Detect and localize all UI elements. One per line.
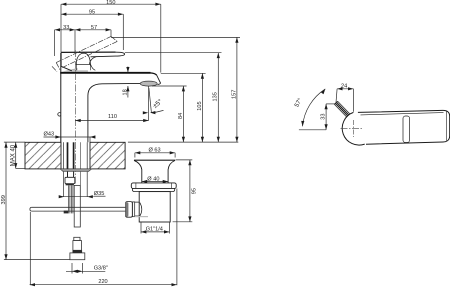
dimension 57 [75,30,111,52]
mounting nut [65,177,75,183]
extension line 135 (lever top) [125,52,222,54]
svg-text:110: 110 [108,114,117,120]
drain collar ring 1 [131,183,176,189]
supply hose pair [68,185,70,213]
head left edge and chin [61,53,72,71]
faucet body left edge [60,53,62,143]
57° arc [303,89,326,126]
dimension 157 [236,37,238,142]
shank tube through deck [63,142,65,196]
dimension 105 [201,73,203,142]
aerator [140,81,157,86]
svg-text:57: 57 [91,25,97,31]
blade inner cap line [445,112,447,141]
faucet centerline [74,50,76,205]
dimension 220 [29,212,31,285]
shadow bar above spout top [67,70,88,72]
svg-text:220: 220 [98,279,107,285]
washer under deck [60,169,92,172]
svg-text:105: 105 [197,101,203,110]
handle centerlines [341,128,392,130]
phantom raised lever (side view, drawn over solid) [52,36,117,71]
svg-text:24: 24 [341,83,347,89]
drain flange [134,159,175,161]
extension line 105 (spout top) [161,72,206,74]
svg-text:95: 95 [89,9,95,15]
dimension 24 [337,88,353,90]
cartridge dome [76,53,90,64]
svg-text:135: 135 [213,92,219,101]
dimension 135 [217,53,219,142]
dimension 95 (drain height) [176,159,193,161]
extension line 157 (raised lever top) [111,36,240,38]
pop-up rod (horizontal) [32,207,126,211]
lever neck curve [89,57,96,65]
extension line deck top right [128,141,238,143]
threaded studs (dark) [67,142,69,169]
aerator stream centerline [148,86,150,120]
spout tip face [157,75,161,84]
handle blade (top view) [358,110,450,144]
rod clamp [64,211,68,214]
±5° arrows and leader [143,111,148,114]
blade inner top line [361,113,444,115]
dimension 33 (right view) [326,103,336,105]
dimension MAX 40 [15,142,17,168]
spout underside [88,83,140,142]
lever handle blade (solid, closed position) [61,51,115,53]
stud stubs between washer and nut [67,171,69,177]
lift rod housing column [74,185,80,227]
svg-text:95: 95 [191,188,197,194]
deck top extension to left [4,141,25,143]
drain body [139,192,170,222]
svg-text:33: 33 [63,25,69,31]
gray band under port [135,216,148,217]
dimension 84 [182,86,184,142]
small c mark on body edge [58,113,61,116]
dimension 18 [127,67,129,98]
deck bottom extension for MAX 40 [16,168,25,170]
svg-text:18: 18 [122,89,128,95]
dimension 399 [5,142,7,259]
drain collar ring 2 [132,189,174,192]
svg-text:84: 84 [178,113,184,119]
countertop deck right slab [90,142,125,169]
dimension 95 [61,14,123,50]
G3/8 connector [74,237,80,240]
side port neck [135,202,140,216]
raised lever blade (edge-on, tilted) [334,101,350,117]
svg-text:G1"1/4: G1"1/4 [146,227,163,233]
shaded wedge under phantom lever back tip [62,68,78,72]
dimension 150 [61,4,161,72]
dimension Ø35 [59,196,94,198]
svg-text:G3/8": G3/8" [94,265,108,271]
dimension G1"1/4 [140,223,142,234]
handle pivot circle (top view) [342,112,364,145]
57° reference line [299,129,326,131]
svg-text:33: 33 [321,113,327,119]
dimension 33 [55,30,75,56]
svg-text:157: 157 [231,90,237,99]
dimension 110 [75,120,148,122]
dimension Ø40 [147,176,161,181]
countertop deck left slab [25,142,61,169]
side port cap [126,202,133,218]
dimension G3/8" [71,263,73,274]
svg-text:399: 399 [1,195,7,204]
tilted stream line ±5° [149,88,152,113]
extension line 84 (aerator plane) [152,85,187,87]
svg-text:MAX 40: MAX 40 [10,144,16,166]
port boss arc [140,203,142,217]
blade inner grip outline [403,116,410,143]
spout top (thick) [60,72,150,74]
svg-text:150: 150 [106,0,115,6]
